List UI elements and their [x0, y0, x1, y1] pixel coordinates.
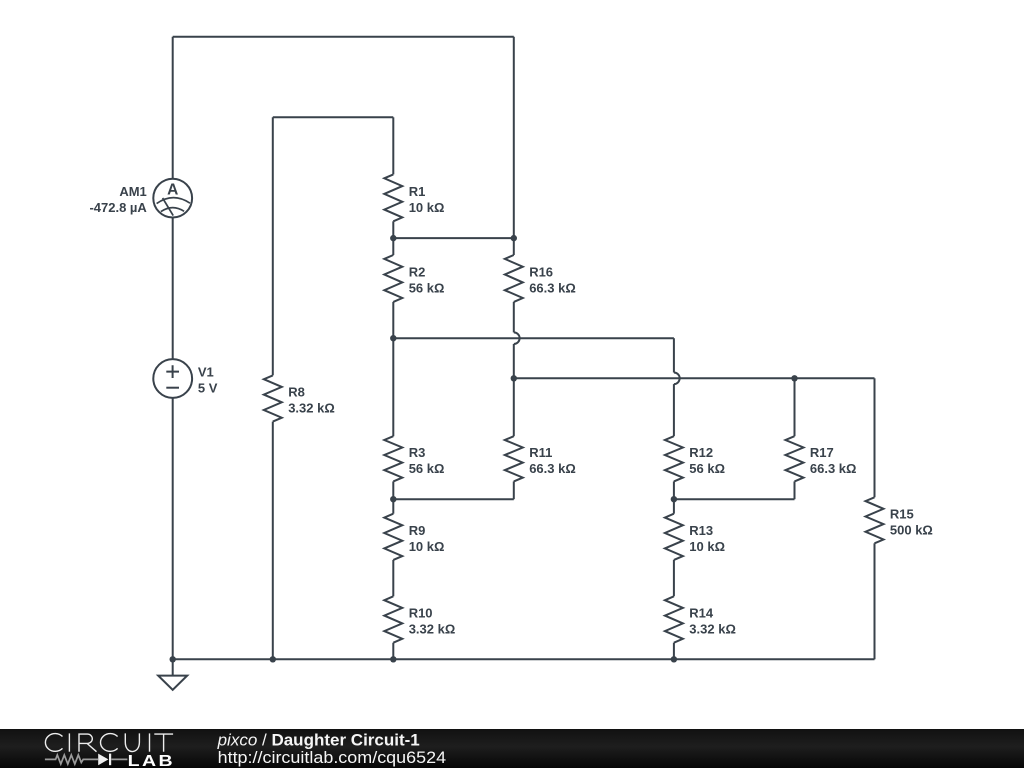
svg-text:R2: R2 — [409, 264, 426, 279]
svg-text:R15: R15 — [890, 506, 914, 521]
svg-text:R1: R1 — [409, 184, 426, 199]
svg-text:R16: R16 — [529, 264, 553, 279]
svg-text:10 kΩ: 10 kΩ — [409, 539, 445, 554]
svg-text:R8: R8 — [288, 385, 305, 400]
svg-text:56 kΩ: 56 kΩ — [409, 461, 445, 476]
svg-text:R12: R12 — [689, 445, 713, 460]
svg-text:R17: R17 — [810, 445, 834, 460]
svg-text:56 kΩ: 56 kΩ — [409, 280, 445, 295]
svg-text:56 kΩ: 56 kΩ — [689, 461, 725, 476]
svg-text:AM1: AM1 — [119, 184, 146, 199]
svg-text:R14: R14 — [689, 606, 714, 621]
svg-text:R11: R11 — [529, 445, 552, 460]
svg-text:3.32 kΩ: 3.32 kΩ — [689, 622, 736, 637]
svg-text:R9: R9 — [409, 523, 426, 538]
svg-text:http://circuitlab.com/cqu6524: http://circuitlab.com/cqu6524 — [218, 748, 447, 767]
svg-text:pixco / Daughter Circuit-1: pixco / Daughter Circuit-1 — [217, 730, 420, 749]
svg-text:V1: V1 — [198, 365, 214, 380]
svg-text:R3: R3 — [409, 445, 426, 460]
svg-text:66.3 kΩ: 66.3 kΩ — [529, 280, 576, 295]
svg-text:3.32 kΩ: 3.32 kΩ — [288, 401, 335, 416]
svg-text:10 kΩ: 10 kΩ — [689, 539, 725, 554]
svg-text:A: A — [167, 181, 178, 198]
svg-text:LAB: LAB — [128, 751, 175, 768]
svg-text:-472.8 µA: -472.8 µA — [89, 200, 147, 215]
svg-text:R13: R13 — [689, 523, 713, 538]
svg-text:5 V: 5 V — [198, 381, 218, 396]
svg-text:66.3 kΩ: 66.3 kΩ — [529, 461, 576, 476]
svg-text:66.3 kΩ: 66.3 kΩ — [810, 461, 857, 476]
svg-text:500 kΩ: 500 kΩ — [890, 522, 933, 537]
svg-text:10 kΩ: 10 kΩ — [409, 200, 445, 215]
svg-text:R10: R10 — [409, 606, 433, 621]
svg-text:3.32 kΩ: 3.32 kΩ — [409, 622, 456, 637]
